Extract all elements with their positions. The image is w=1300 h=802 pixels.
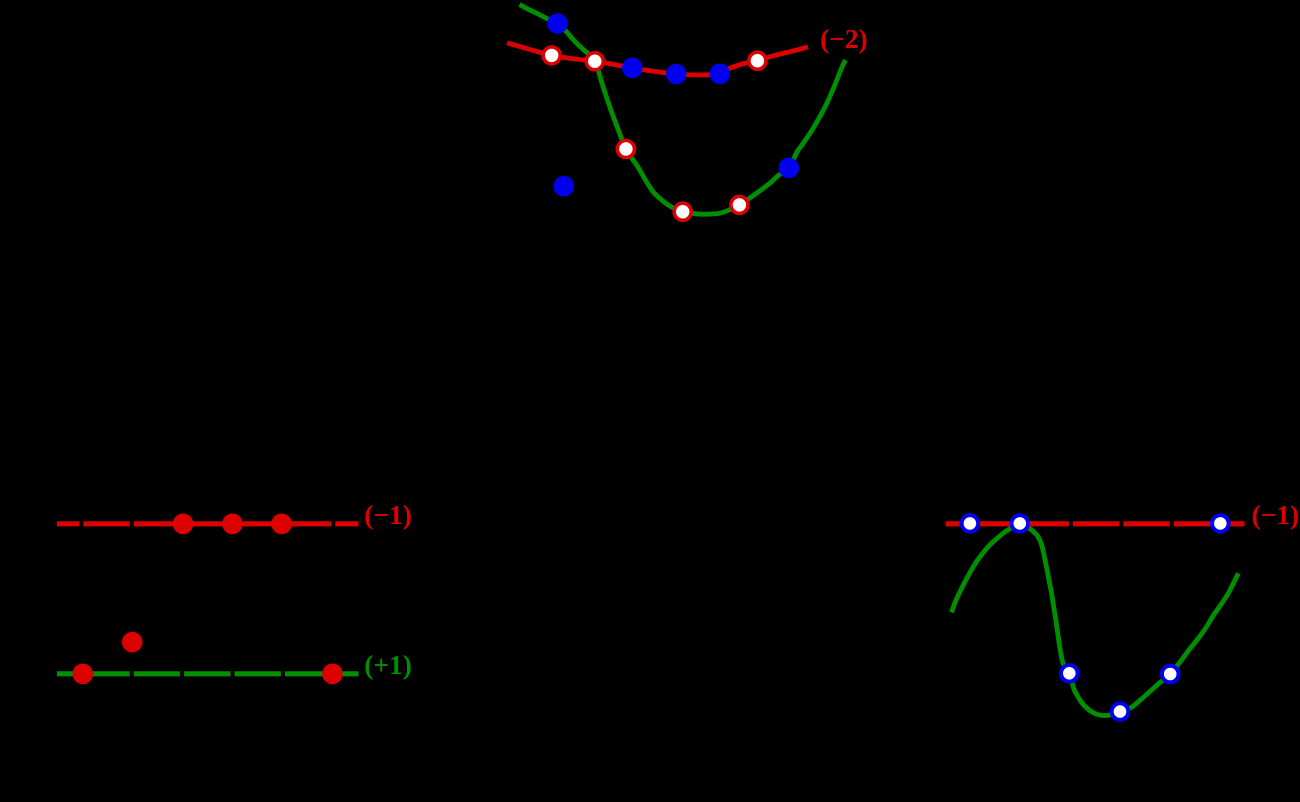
red data point A2 (on red line) <box>222 514 243 535</box>
red dashed line y=-1, bottom-right panel <box>946 521 1245 526</box>
red curve: top-middle panel quadratic fit <box>507 43 808 75</box>
open data point C5 (white/blue ring, green valley) <box>1112 703 1129 720</box>
open data point C6 (white/blue ring, green ascent) <box>1162 666 1179 683</box>
red data point A3 (on red line) <box>271 514 292 535</box>
open data point W4 (white/red ring, on green descent) <box>617 141 634 158</box>
blue data point B3 (on red curve) <box>666 64 687 85</box>
blue data point B5 (on green, right) <box>779 158 800 179</box>
green curve: bottom-right panel fit <box>952 524 1239 716</box>
svg-text:(+1): (+1) <box>364 650 412 680</box>
open data point C1 (white/blue ring, on red line) <box>962 515 979 532</box>
svg-text:(−1): (−1) <box>364 500 412 530</box>
blue data point B2 (on red curve) <box>622 58 643 79</box>
open data point C2 (white/blue ring, at green peak) <box>1012 515 1029 532</box>
open data point C3 (white/blue ring, on red line right) <box>1212 515 1229 532</box>
open data point W3 (white/red ring, on red curve right) <box>749 52 766 69</box>
green curve: top-middle panel high-degree fit <box>520 5 846 215</box>
red dashed line y=-1, bottom-left panel <box>57 521 359 526</box>
open data point W1 (white/red ring, on red curve) <box>543 47 560 64</box>
green dashed line y=+1, bottom-left panel <box>57 671 359 676</box>
svg-text:(−1): (−1) <box>1252 500 1300 530</box>
svg-text:(−2): (−2) <box>820 24 868 54</box>
blue data point B4 (on red curve) <box>710 64 731 85</box>
blue data point B1 (on green, upper left) <box>547 13 568 34</box>
red data point A6 (on green line right) <box>322 664 343 685</box>
open data point W2 (white/red ring, at curve crossing) <box>586 53 603 70</box>
red data point A4 (on green line left) <box>73 664 94 685</box>
blue data point B6 (isolated, lower left) <box>554 176 575 197</box>
red data point A5 (floating above green line) <box>122 632 143 653</box>
open data point W5 (white/red ring, green valley) <box>674 203 691 220</box>
red data point A1 (on red line) <box>173 514 194 535</box>
open data point C4 (white/blue ring, green descent) <box>1061 665 1078 682</box>
open data point W6 (white/red ring, green valley right) <box>731 196 748 213</box>
